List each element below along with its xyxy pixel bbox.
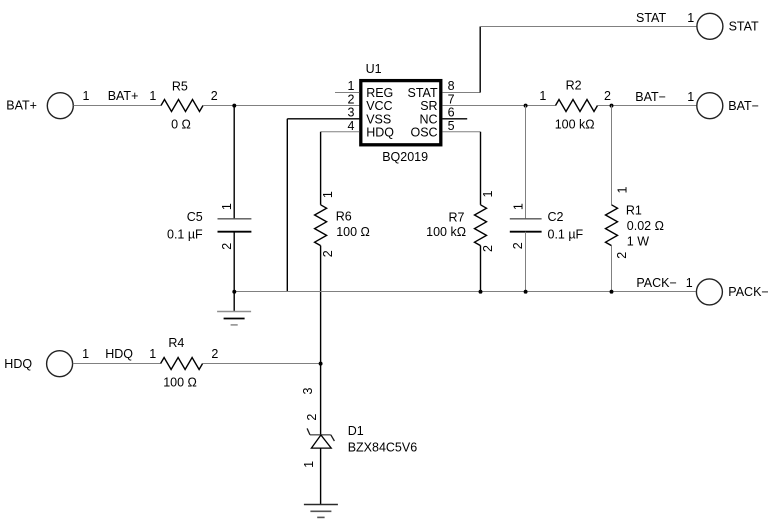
resistor R1: [606, 205, 618, 246]
value label 0.1 uF (C2): [548, 228, 584, 242]
value label 0 ohm (R5): [171, 118, 191, 132]
terminal HDQ: [47, 351, 73, 377]
svg-text:R5: R5: [172, 80, 188, 94]
pin 3 stub (VSS): [287, 118, 359, 120]
pin label REG: [366, 86, 393, 100]
svg-text:8: 8: [448, 79, 455, 93]
svg-text:1: 1: [687, 11, 694, 25]
pin 8 stub (STAT): [442, 92, 480, 94]
resistor R5: [161, 100, 203, 112]
svg-text:STAT: STAT: [408, 86, 438, 100]
svg-text:OSC: OSC: [411, 126, 438, 140]
net label PACK-: [636, 276, 676, 290]
pin number 1 (PACK- terminal): [686, 276, 693, 290]
svg-text:2: 2: [615, 252, 629, 259]
resistor R2: [556, 100, 598, 112]
svg-text:0.02 Ω: 0.02 Ω: [627, 219, 664, 233]
svg-text:4: 4: [348, 119, 355, 133]
net label STAT: [636, 11, 666, 25]
pin number 6 (U1): [448, 106, 455, 120]
pin number 5 (U1): [448, 119, 455, 133]
pin number 3 (D1, rotated): [301, 387, 315, 394]
pin 6 stub (NC): [442, 118, 467, 120]
wire OSC pin 5 down to R7: [480, 132, 482, 205]
pin number 1 (C5 top, rotated): [220, 203, 234, 210]
svg-text:3: 3: [301, 387, 315, 394]
svg-text:2: 2: [305, 414, 319, 421]
junction dot SR node / C2: [524, 104, 528, 108]
ground symbol at D1: [304, 505, 338, 518]
svg-text:1: 1: [348, 79, 355, 93]
svg-text:1: 1: [687, 90, 694, 104]
svg-text:BAT−: BAT−: [635, 90, 666, 104]
pin number 1 (R2 left): [539, 89, 546, 103]
svg-text:D1: D1: [348, 424, 364, 438]
svg-text:3: 3: [348, 106, 355, 120]
pin number 2 (R2 right): [604, 89, 611, 103]
svg-text:1: 1: [539, 89, 546, 103]
pin number 8 (U1): [448, 79, 455, 93]
svg-text:1: 1: [302, 461, 316, 468]
pin 1 stub (REG): [335, 92, 359, 94]
net label HDQ: [105, 347, 133, 361]
label R5: [172, 80, 188, 94]
svg-text:NC: NC: [420, 112, 438, 126]
label R1: [626, 204, 642, 218]
wire STAT horizontal to terminal: [480, 26, 697, 28]
pin 5 stub (OSC): [442, 131, 480, 133]
svg-text:R4: R4: [168, 336, 184, 350]
svg-text:1: 1: [82, 89, 89, 103]
svg-text:1: 1: [220, 203, 234, 210]
svg-text:100 kΩ: 100 kΩ: [555, 118, 595, 132]
wire R2 to BAT- terminal: [598, 105, 697, 107]
svg-text:1: 1: [82, 347, 89, 361]
ground symbol at C5 node: [217, 292, 251, 325]
svg-text:HDQ: HDQ: [366, 126, 394, 140]
capacitor C5: [218, 219, 252, 232]
svg-text:100 Ω: 100 Ω: [163, 375, 197, 389]
pin number 1 (R4 left): [149, 347, 156, 361]
svg-text:0.1 µF: 0.1 µF: [548, 228, 584, 242]
junction dot R1 / bus: [610, 290, 614, 294]
label R7: [449, 211, 465, 225]
pin number 1 (STAT terminal): [687, 11, 694, 25]
wire R4 to HDQ junction: [203, 363, 321, 365]
svg-text:100 kΩ: 100 kΩ: [426, 225, 466, 239]
svg-text:R2: R2: [566, 79, 582, 93]
svg-text:PACK−: PACK−: [636, 276, 676, 290]
svg-text:C2: C2: [548, 210, 564, 224]
svg-text:1: 1: [616, 186, 630, 193]
pin number 1 (R6 top, rotated): [321, 191, 335, 198]
svg-text:STAT: STAT: [636, 11, 666, 25]
svg-text:1: 1: [511, 203, 525, 210]
wire C2 top from SR node: [525, 106, 527, 219]
pin number 2 (C2 bottom, rotated): [511, 242, 525, 249]
svg-text:SR: SR: [420, 99, 437, 113]
svg-text:STAT: STAT: [729, 19, 759, 33]
pin number 1 (BAT- terminal): [687, 90, 694, 104]
pin number 1 (C2 top, rotated): [511, 203, 525, 210]
label BAT+ (left port name): [6, 98, 37, 112]
svg-text:2: 2: [321, 250, 335, 257]
terminal BAT-: [697, 93, 723, 119]
wire R1 top from BAT- node: [611, 106, 613, 205]
pin number 2 (D1, rotated): [305, 414, 319, 421]
pin number 2 (R4 right): [211, 347, 218, 361]
wire VSS pin 3 down to ground bus: [286, 119, 288, 292]
svg-text:5: 5: [448, 119, 455, 133]
svg-text:BAT−: BAT−: [728, 99, 759, 113]
label U1: [366, 62, 382, 76]
svg-text:0 Ω: 0 Ω: [171, 118, 191, 132]
pin number 1 (HDQ terminal): [82, 347, 89, 361]
value label 1 W (R1): [627, 235, 649, 249]
label C5: [187, 210, 203, 224]
pin number 1 (R1 top, rotated): [616, 186, 630, 193]
svg-text:2: 2: [604, 89, 611, 103]
label C2: [548, 210, 564, 224]
svg-text:100 Ω: 100 Ω: [336, 225, 370, 239]
pin number 2 (R7 bottom, rotated): [481, 245, 495, 252]
svg-text:1: 1: [149, 347, 156, 361]
label BAT- (right port name): [728, 99, 759, 113]
pin label SR: [420, 99, 437, 113]
svg-text:PACK−: PACK−: [728, 285, 768, 299]
pin number 7 (U1): [448, 92, 455, 106]
capacitor C2: [510, 219, 542, 232]
svg-text:BQ2019: BQ2019: [382, 150, 428, 164]
svg-text:1: 1: [481, 190, 495, 197]
junction dot C5 / ground: [232, 290, 236, 294]
value label 100 ohm (R4): [163, 375, 197, 389]
svg-text:7: 7: [448, 92, 455, 106]
svg-text:R7: R7: [449, 211, 465, 225]
wire ground / PACK- bus: [234, 291, 695, 293]
svg-text:1 W: 1 W: [627, 235, 649, 249]
pin label OSC: [411, 126, 438, 140]
resistor R7: [475, 205, 487, 246]
label PACK- (right port name): [728, 285, 768, 299]
pin label STAT: [408, 86, 438, 100]
pin number 1 (R7 top, rotated): [481, 190, 495, 197]
svg-text:R6: R6: [336, 209, 352, 223]
pin number 1 (BAT+ terminal): [82, 89, 89, 103]
label R2: [566, 79, 582, 93]
pin number 2 (R1 bottom, rotated): [615, 252, 629, 259]
wire D1 anode to ground: [320, 448, 322, 504]
svg-text:C5: C5: [187, 210, 203, 224]
junction dot R7 / bus: [479, 290, 483, 294]
junction dot at R5 / C5 node: [232, 104, 236, 108]
svg-text:1: 1: [686, 276, 693, 290]
junction dot R2 right / R1 top: [610, 104, 614, 108]
pin 7 stub (SR): [442, 105, 555, 107]
wire HDQ pin 4 down to R6: [320, 132, 322, 205]
value label 0.1 uF (C5): [167, 228, 203, 242]
svg-text:1: 1: [321, 191, 335, 198]
terminal STAT: [697, 13, 723, 39]
pin number 2 (C5 bottom, rotated): [220, 243, 234, 250]
svg-text:R1: R1: [626, 204, 642, 218]
svg-text:U1: U1: [366, 62, 382, 76]
pin number 1 (D1 bottom, rotated): [302, 461, 316, 468]
junction dot HDQ net: [319, 362, 323, 366]
svg-text:2: 2: [511, 242, 525, 249]
svg-text:VCC: VCC: [366, 99, 392, 113]
net label BAT+: [108, 89, 139, 103]
pin number 2 (R5 right): [211, 89, 218, 103]
net label BAT-: [635, 90, 666, 104]
terminal PACK-: [696, 279, 722, 305]
resistor R4: [161, 358, 203, 370]
svg-text:BAT+: BAT+: [108, 89, 139, 103]
wire BAT+ terminal to R5: [74, 105, 162, 107]
pin number 1 (U1): [348, 79, 355, 93]
wire R7 bottom to ground bus: [480, 246, 482, 292]
value label 100 kohm (R2): [555, 118, 595, 132]
svg-text:2: 2: [348, 92, 355, 106]
svg-text:HDQ: HDQ: [105, 347, 133, 361]
wire STAT vertical from pin 8: [479, 27, 481, 93]
wire R1 bottom to PACK- bus: [611, 246, 613, 292]
pin 4 stub (HDQ): [321, 131, 360, 133]
pin label NC: [420, 112, 438, 126]
value label 100 kohm (R7): [426, 225, 466, 239]
pin label HDQ: [366, 126, 394, 140]
svg-text:HDQ: HDQ: [4, 357, 32, 371]
svg-text:BZX84C5V6: BZX84C5V6: [348, 440, 418, 454]
label STAT (right port name): [729, 19, 759, 33]
svg-text:REG: REG: [366, 86, 393, 100]
label D1: [348, 424, 364, 438]
wire C5 bottom plate to ground bus: [233, 232, 235, 292]
wire R6 bottom to HDQ junction: [320, 246, 322, 364]
wire C2 bottom to ground bus: [525, 232, 527, 292]
IC U1 BQ2019 body: [361, 81, 441, 145]
svg-text:VSS: VSS: [366, 112, 391, 126]
value label 0.02 ohm (R1): [627, 219, 664, 233]
pin number 3 (U1): [348, 106, 355, 120]
label BQ2019: [382, 150, 428, 164]
resistor R6: [315, 205, 327, 246]
zener diode D1 cathode bar: [307, 428, 334, 441]
wire R5 to U1 pin 2: [203, 105, 359, 107]
junction dot C2 / bus: [524, 290, 528, 294]
pin number 4 (U1): [348, 119, 355, 133]
svg-text:2: 2: [481, 245, 495, 252]
svg-text:1: 1: [149, 89, 156, 103]
pin number 1 (R5 left): [149, 89, 156, 103]
pin label VCC: [366, 99, 392, 113]
pin number 2 (U1): [348, 92, 355, 106]
label HDQ (left port name): [4, 357, 32, 371]
wire HDQ junction down to D1: [320, 364, 322, 435]
svg-text:6: 6: [448, 106, 455, 120]
svg-text:2: 2: [220, 243, 234, 250]
pin number 2 (R6 bottom, rotated): [321, 250, 335, 257]
svg-text:BAT+: BAT+: [6, 98, 37, 112]
label R6: [336, 209, 352, 223]
terminal BAT+: [47, 93, 73, 119]
zener diode D1 anode triangle: [311, 435, 331, 448]
wire C5 node down to C5 top plate: [233, 106, 235, 219]
value label BZX84C5V6 (D1): [348, 440, 418, 454]
wire HDQ terminal to R4: [73, 363, 161, 365]
svg-text:2: 2: [211, 89, 218, 103]
svg-text:0.1 µF: 0.1 µF: [167, 228, 203, 242]
svg-text:2: 2: [211, 347, 218, 361]
label R4: [168, 336, 184, 350]
pin label VSS: [366, 112, 391, 126]
value label 100 ohm (R6): [336, 225, 370, 239]
